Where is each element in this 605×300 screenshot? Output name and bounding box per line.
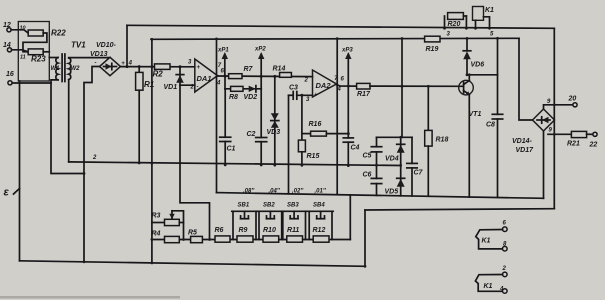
svg-text:R9: R9: [239, 227, 248, 234]
wire C3 left plate down to lineA: [288, 95, 290, 194]
resistor R15: [298, 94, 319, 166]
node 2 line wire: [69, 162, 401, 166]
svg-text:R22: R22: [51, 29, 66, 38]
svg-text:R23: R23: [31, 55, 46, 64]
svg-text:VD14-: VD14-: [512, 138, 533, 145]
svg-text:16: 16: [6, 71, 14, 78]
wire bridge minus path left and down: [84, 67, 100, 262]
wire R22 to R23 jog: [23, 33, 47, 52]
resistor R6: [215, 227, 231, 242]
transistor VT1: [459, 75, 482, 118]
potentiometer R3: [152, 211, 184, 226]
svg-text:R16: R16: [309, 121, 322, 128]
pushbutton SB4: [308, 203, 333, 240]
bridge rectifier VD10-VD13: [90, 42, 125, 76]
diode VD4: [385, 137, 405, 165]
wire R17 to VT1 base: [370, 85, 463, 87]
line A lower rail wire: [217, 193, 544, 199]
svg-text:xP2: xP2: [254, 47, 266, 53]
resistor R10: [263, 227, 279, 242]
capacitor C2: [247, 89, 267, 165]
node output junction: [224, 75, 227, 78]
wire top bus right end down to lineB: [553, 28, 555, 208]
svg-text:R12: R12: [313, 227, 326, 234]
wire DA2 output to R17: [337, 85, 357, 87]
relay contact K1 upper: [476, 221, 507, 252]
resistor R20: [445, 13, 467, 29]
bottom bus wire: [20, 261, 366, 267]
svg-text:+: +: [197, 65, 201, 71]
node 4: [126, 61, 133, 69]
resistor R1: [136, 65, 155, 90]
resistor R12: [313, 227, 330, 242]
wire R3 wiper to right vertical: [172, 211, 184, 240]
wire feedback down from pin2 node: [180, 85, 210, 239]
wire riser to top bus: [126, 25, 128, 66]
wire lineB left end down to bottom bus: [364, 210, 366, 266]
scan artifact bottom edge: [0, 296, 180, 299]
diode VD5: [385, 165, 405, 195]
svg-text:SB4: SB4: [313, 203, 325, 209]
svg-text:C6: C6: [363, 172, 372, 179]
resistor R18: [425, 86, 449, 196]
resistor R21: [567, 131, 593, 147]
svg-text:2: 2: [502, 266, 507, 272]
resistor R22: [28, 29, 66, 38]
node E chassis label: [4, 187, 20, 199]
top bus wire: [127, 25, 554, 28]
svg-text:SB1: SB1: [238, 203, 250, 209]
svg-text:VD6: VD6: [471, 62, 485, 69]
wire W1 bottom lead down and right: [51, 80, 84, 174]
wire W2 bottom lead down to node2 line: [68, 80, 70, 162]
svg-text:VD17: VD17: [516, 147, 535, 154]
resistor R9: [237, 227, 253, 242]
svg-text:R18: R18: [436, 137, 449, 144]
svg-text:4: 4: [128, 61, 133, 67]
wire R23 to box edge: [43, 51, 49, 53]
wire riser second bus down to bottom bus: [151, 39, 153, 263]
pushbutton SB3: [282, 203, 307, 240]
svg-text:R20: R20: [448, 21, 461, 28]
transformer core: [61, 54, 63, 82]
wire bridge2 to R21: [548, 133, 571, 135]
relay coil K1: [473, 7, 495, 29]
winding W1: [56, 58, 58, 80]
diode VD6 zener: [463, 38, 484, 74]
wire VD6 collector node to C8 drop: [467, 74, 498, 76]
terminal 22: [589, 132, 598, 148]
svg-text:R21: R21: [567, 141, 580, 148]
wire chain right riser to lineA: [349, 195, 351, 240]
wire bridge2 bottom down to lineA: [543, 131, 545, 198]
resistor R16: [302, 121, 350, 136]
pushbutton SB2: [258, 203, 283, 240]
svg-text:22: 22: [589, 142, 598, 149]
wire VT1 emitter down to lineA: [468, 95, 470, 197]
svg-text:R17: R17: [357, 91, 371, 98]
svg-text:K1: K1: [484, 283, 493, 290]
svg-text:VD10-: VD10-: [96, 42, 117, 49]
svg-text:VD4: VD4: [385, 156, 399, 163]
wire drop output to R8 row right: [260, 76, 262, 88]
svg-text:11: 11: [20, 55, 26, 61]
svg-text:10: 10: [20, 26, 26, 32]
bridge rectifier VD14-VD17: [512, 109, 555, 154]
svg-text:C3: C3: [289, 85, 298, 92]
resistor R17: [357, 83, 371, 98]
diode VD3 twin zener: [267, 75, 281, 165]
winding W2: [69, 58, 71, 80]
terminal 16: [6, 71, 14, 85]
wire DA1 power vertical pins 7 4: [216, 39, 218, 193]
svg-text:20: 20: [568, 96, 577, 103]
terminal 20: [568, 96, 578, 107]
svg-text:R2: R2: [153, 70, 164, 79]
svg-text:,08″: ,08″: [242, 189, 255, 195]
svg-text:VD3: VD3: [267, 129, 281, 136]
pushbutton SB1: [232, 203, 257, 240]
svg-text:R6: R6: [215, 227, 224, 234]
svg-text:SB3: SB3: [287, 203, 299, 209]
svg-text:K1: K1: [485, 7, 494, 14]
svg-text:xP1: xP1: [217, 48, 229, 54]
svg-text:R4: R4: [152, 231, 161, 238]
wire terminal14 to R23: [12, 50, 29, 52]
diode VD2: [244, 86, 258, 101]
capacitor C7: [407, 137, 424, 196]
svg-text:VD1: VD1: [164, 84, 178, 91]
svg-text:2: 2: [92, 155, 97, 161]
resistor R4: [152, 231, 180, 243]
wire diode block top node: [377, 136, 413, 138]
wire terminal12 to R22: [11, 30, 28, 33]
resistor R2: [153, 64, 171, 79]
resistor R23: [28, 49, 46, 64]
relay contact K1 lower: [475, 266, 507, 293]
diode VD1: [164, 65, 184, 91]
terminal 14: [3, 42, 12, 52]
capacitor C4: [343, 138, 359, 166]
svg-text:K1: K1: [482, 238, 491, 245]
svg-text:ε: ε: [4, 187, 10, 199]
resistor R19: [425, 36, 440, 53]
svg-text:DA1: DA1: [197, 74, 212, 83]
dashed unit box around R22 R23: [18, 22, 49, 82]
svg-text:R5: R5: [188, 230, 197, 237]
svg-text:,02″: ,02″: [291, 189, 304, 195]
svg-text:W2: W2: [71, 66, 81, 72]
svg-text:2: 2: [190, 85, 195, 91]
svg-text:2: 2: [304, 78, 309, 84]
transformer TV1: [51, 41, 87, 82]
svg-text:C1: C1: [227, 146, 236, 153]
resistor chain wire: [152, 239, 350, 241]
svg-text:R14: R14: [273, 66, 286, 73]
wire bus2 right end down to bridge2: [519, 38, 533, 120]
svg-text:-: -: [197, 85, 199, 91]
svg-text:,01″: ,01″: [314, 189, 327, 195]
wire C3 right plate to DA2 pin3: [297, 94, 313, 96]
terminal 12: [3, 22, 11, 32]
svg-text:VD5: VD5: [385, 189, 399, 196]
test point XP1: [217, 48, 229, 77]
svg-text:C2: C2: [247, 131, 256, 138]
svg-text:VD2: VD2: [244, 94, 258, 101]
svg-text:VD13: VD13: [90, 51, 108, 58]
resistor R5: [188, 230, 202, 243]
op-amp DA1: [188, 59, 225, 92]
svg-text:,04″: ,04″: [268, 189, 281, 195]
svg-text:R11: R11: [287, 227, 299, 234]
svg-text:xP3: xP3: [341, 48, 353, 54]
wire DA2 power vertical pins 7 4: [336, 39, 338, 195]
test point XP3: [341, 48, 353, 138]
wire W2 top lead to bridge: [69, 57, 110, 59]
capacitor C8: [486, 38, 503, 197]
test point XP2: [254, 47, 266, 78]
capacitor C1: [220, 89, 236, 165]
svg-text:W1: W1: [51, 66, 61, 72]
wire vertical bus2 to diode block: [401, 39, 404, 138]
wire DA1 output: [218, 75, 313, 78]
svg-text:DA2: DA2: [316, 81, 332, 90]
line B outer bottom rail wire: [365, 209, 554, 210]
svg-text:R1: R1: [144, 80, 155, 89]
svg-text:R10: R10: [263, 227, 276, 234]
svg-text:TV1: TV1: [71, 41, 86, 50]
wire W1 top lead: [49, 57, 58, 59]
svg-text:C4: C4: [351, 145, 360, 152]
svg-text:-: -: [95, 61, 97, 67]
capacitor C3: [289, 85, 299, 100]
svg-text:R3: R3: [152, 213, 161, 220]
resistor R11: [287, 227, 303, 242]
wire bridge2 top to terminal 20: [544, 105, 573, 109]
svg-text:SB2: SB2: [263, 203, 275, 209]
svg-text:VT1: VT1: [469, 111, 482, 118]
op-amp DA2: [304, 70, 345, 103]
capacitor C5: [363, 137, 382, 165]
svg-text:R7: R7: [244, 66, 254, 73]
wire terminal16: [12, 82, 51, 84]
svg-text:R15: R15: [307, 153, 320, 160]
svg-text:C8: C8: [486, 122, 495, 129]
wire R1 bottom to node2 line: [138, 90, 140, 163]
wire main line from bridge plus output: [121, 66, 195, 68]
wire R8 row: [225, 88, 261, 90]
svg-text:R19: R19: [426, 46, 439, 53]
capacitor C6: [363, 165, 382, 195]
svg-text:C7: C7: [414, 170, 424, 177]
wire VD1 node to DA1 pin2: [180, 84, 195, 86]
resistor R7: [229, 66, 254, 79]
resistor R8: [229, 86, 243, 101]
wire left vertical to bottom: [19, 81, 21, 261]
second bus wire: [151, 38, 519, 39]
wire drop to R8 row left: [224, 76, 226, 89]
svg-text:C5: C5: [363, 153, 372, 160]
svg-text:+: +: [314, 93, 318, 99]
svg-text:R8: R8: [229, 94, 238, 101]
resistor R14: [273, 66, 292, 78]
